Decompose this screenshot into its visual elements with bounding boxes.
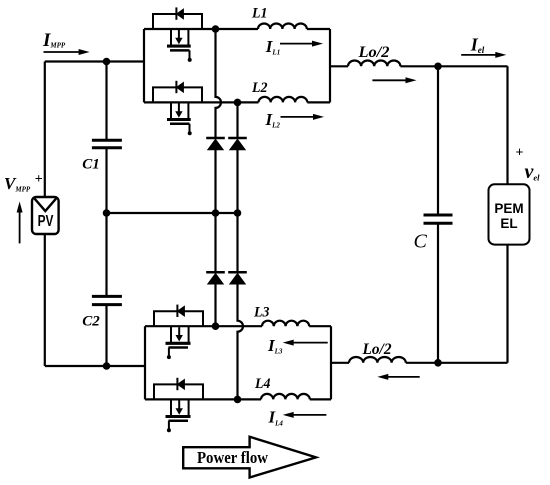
svg-text:IL4: IL4: [268, 408, 284, 428]
svg-text:IL3: IL3: [267, 336, 283, 356]
svg-text:IMPP: IMPP: [42, 30, 66, 51]
svg-text:vel: vel: [525, 161, 541, 183]
svg-text:+: +: [516, 146, 524, 161]
svg-text:L3: L3: [253, 305, 270, 321]
svg-text:C1: C1: [82, 156, 100, 173]
svg-text:IL2: IL2: [265, 110, 281, 130]
svg-text:Lo/2: Lo/2: [362, 341, 392, 358]
svg-text:Lo/2: Lo/2: [357, 44, 389, 61]
svg-text:Iel: Iel: [470, 35, 485, 56]
svg-text:Power flow: Power flow: [197, 448, 268, 467]
svg-text:IL1: IL1: [265, 37, 280, 57]
svg-text:PEM: PEM: [494, 201, 523, 216]
svg-text:L2: L2: [251, 80, 268, 96]
svg-text:PV: PV: [38, 213, 54, 230]
svg-text:EL: EL: [500, 216, 517, 231]
svg-text:C2: C2: [82, 313, 100, 330]
svg-text:VMPP: VMPP: [4, 174, 31, 194]
svg-text:L1: L1: [251, 5, 267, 21]
svg-text:C: C: [414, 231, 428, 253]
svg-text:L4: L4: [254, 376, 271, 392]
svg-text:+: +: [35, 172, 43, 187]
